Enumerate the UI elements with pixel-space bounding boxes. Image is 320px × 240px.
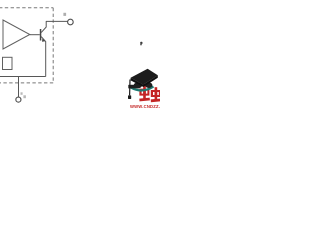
svg-text:WWW.CNDZZ.C: WWW.CNDZZ.C — [130, 104, 160, 109]
